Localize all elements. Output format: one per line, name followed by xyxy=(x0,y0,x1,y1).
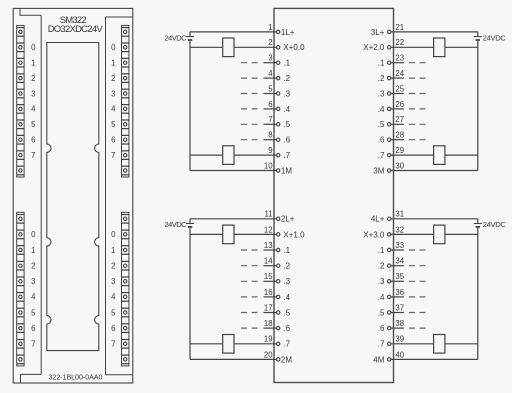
wire pin 19 to supply rail xyxy=(190,343,277,345)
svg-text:1: 1 xyxy=(111,59,115,68)
terminal strip left bottom xyxy=(17,212,24,366)
pin 8 terminal circle xyxy=(277,138,280,141)
wire pin 1 to supply rail xyxy=(190,31,277,33)
wire pin 23 dashed continuation xyxy=(409,62,426,64)
svg-text:35: 35 xyxy=(395,272,404,281)
wire pin 18 dashed continuation xyxy=(241,327,257,329)
svg-text:3M: 3M xyxy=(373,166,384,175)
svg-text:5: 5 xyxy=(268,84,273,93)
svg-text:3: 3 xyxy=(111,277,115,286)
wire pin 13 dashed continuation xyxy=(241,249,257,251)
pin 40 terminal circle xyxy=(388,358,391,361)
wire pin 14 dashed continuation xyxy=(241,265,257,267)
wire pin 37 stub xyxy=(391,312,404,314)
wire pin 40 to supply rail xyxy=(391,358,478,360)
pin 35 terminal circle xyxy=(388,280,391,283)
pin 12 terminal circle xyxy=(277,233,280,236)
svg-text:.3: .3 xyxy=(283,89,290,98)
wire pin 35 stub xyxy=(391,280,404,282)
svg-text:2: 2 xyxy=(31,74,35,83)
svg-text:21: 21 xyxy=(395,23,404,32)
wire pin 2 to supply rail xyxy=(190,46,277,48)
svg-text:25: 25 xyxy=(395,84,404,93)
svg-text:2: 2 xyxy=(31,262,35,271)
wire pin 6 stub xyxy=(263,108,276,110)
wire pin 16 stub xyxy=(263,296,276,298)
pin 3 terminal circle xyxy=(277,61,280,64)
wire pin 22 to supply rail xyxy=(391,46,478,48)
battery 24VDC group 4 negative plate xyxy=(476,226,480,228)
pin 30 terminal circle xyxy=(388,169,391,172)
pin 2 terminal circle xyxy=(277,46,280,49)
svg-text:28: 28 xyxy=(395,131,404,140)
module body plate with notches xyxy=(47,43,99,351)
svg-text:5: 5 xyxy=(111,308,116,317)
wire pin 15 dashed continuation xyxy=(241,280,257,282)
svg-text:24VDC: 24VDC xyxy=(483,33,507,42)
pin 22 terminal circle xyxy=(388,46,391,49)
pin 4 terminal circle xyxy=(277,76,280,79)
svg-text:6: 6 xyxy=(111,324,115,333)
svg-text:26: 26 xyxy=(395,100,404,109)
pin 20 terminal circle xyxy=(277,358,280,361)
svg-text:5: 5 xyxy=(31,308,36,317)
svg-text:1M: 1M xyxy=(281,166,292,175)
wire 24VDC supply rail group 1 xyxy=(189,32,191,171)
pin 34 terminal circle xyxy=(388,264,391,267)
wire pin 31 to supply rail xyxy=(391,218,478,220)
wire pin 36 stub xyxy=(391,296,404,298)
battery 24VDC group 2 negative plate xyxy=(188,226,192,228)
svg-text:3: 3 xyxy=(268,54,272,63)
wire pin 30 to supply rail xyxy=(391,170,478,172)
svg-text:18: 18 xyxy=(264,319,273,328)
module bottom-right step xyxy=(106,374,133,376)
wire pin 24 dashed continuation xyxy=(409,77,426,79)
pin 16 terminal circle xyxy=(277,295,280,298)
svg-text:38: 38 xyxy=(395,319,404,328)
svg-text:.6: .6 xyxy=(378,324,385,333)
pin 31 terminal circle xyxy=(388,217,391,220)
wire pin 5 stub xyxy=(263,93,276,95)
svg-text:1: 1 xyxy=(31,59,35,68)
module top-left step xyxy=(20,8,41,15)
wire pin 34 dashed continuation xyxy=(409,265,426,267)
svg-text:.4: .4 xyxy=(283,105,290,114)
terminal strip left top xyxy=(17,25,24,177)
svg-text:36: 36 xyxy=(395,288,404,297)
pin 17 terminal circle xyxy=(277,311,280,314)
wire pin 12 to supply rail xyxy=(190,233,277,235)
pin 33 terminal circle xyxy=(388,248,391,251)
wire 24VDC supply rail group 3 xyxy=(477,32,479,171)
svg-text:1: 1 xyxy=(31,246,35,255)
battery 24VDC group 3 negative plate xyxy=(476,39,480,41)
svg-text:.1: .1 xyxy=(378,246,385,255)
wire pin 8 dashed continuation xyxy=(241,139,257,141)
svg-text:.5: .5 xyxy=(283,308,290,317)
wire 24VDC supply rail group 2 xyxy=(189,219,191,360)
svg-text:30: 30 xyxy=(395,161,404,170)
svg-text:0: 0 xyxy=(31,43,36,52)
svg-text:X+2.0: X+2.0 xyxy=(363,43,385,52)
svg-text:33: 33 xyxy=(395,241,404,250)
pin 10 terminal circle xyxy=(277,169,280,172)
svg-text:322-1BL00-0AA0: 322-1BL00-0AA0 xyxy=(49,373,103,382)
svg-text:.2: .2 xyxy=(378,262,385,271)
svg-text:22: 22 xyxy=(395,38,404,47)
svg-text:23: 23 xyxy=(395,54,404,63)
wire pin 13 stub xyxy=(263,249,276,251)
pin 27 terminal circle xyxy=(388,123,391,126)
wire pin 26 dashed continuation xyxy=(409,108,426,110)
module top-right step xyxy=(106,16,133,18)
wire pin 20 to supply rail xyxy=(190,358,277,360)
load (actuator) on output X+1.0 group 2 xyxy=(223,225,234,244)
svg-text:17: 17 xyxy=(264,303,273,312)
pin 39 terminal circle xyxy=(388,342,391,345)
svg-text:.6: .6 xyxy=(283,136,290,145)
wire pin 35 dashed continuation xyxy=(409,280,426,282)
wire pin 6 dashed continuation xyxy=(241,108,257,110)
svg-text:29: 29 xyxy=(395,146,404,155)
svg-text:X+0.0: X+0.0 xyxy=(283,43,305,52)
svg-text:27: 27 xyxy=(395,115,404,124)
svg-text:1: 1 xyxy=(268,23,272,32)
svg-text:24VDC: 24VDC xyxy=(483,220,507,229)
battery 24VDC group 4 positive plate xyxy=(474,223,482,225)
wire pin 38 stub xyxy=(391,327,404,329)
svg-text:.2: .2 xyxy=(378,74,385,83)
wire pin 3 dashed continuation xyxy=(241,62,257,64)
svg-text:14: 14 xyxy=(264,257,273,266)
svg-text:1L+: 1L+ xyxy=(281,28,295,37)
wire pin 27 stub xyxy=(391,123,404,125)
svg-text:6: 6 xyxy=(31,136,35,145)
wire pin 14 stub xyxy=(263,265,276,267)
svg-text:32: 32 xyxy=(395,225,404,234)
svg-text:.1: .1 xyxy=(283,59,290,68)
svg-text:.5: .5 xyxy=(378,308,385,317)
wire pin 8 stub xyxy=(263,139,276,141)
pin 36 terminal circle xyxy=(388,295,391,298)
wire pin 18 stub xyxy=(263,327,276,329)
svg-text:6: 6 xyxy=(111,136,115,145)
svg-text:39: 39 xyxy=(395,335,404,344)
svg-text:.3: .3 xyxy=(378,277,385,286)
pin 18 terminal circle xyxy=(277,326,280,329)
svg-text:24VDC: 24VDC xyxy=(165,33,188,42)
svg-text:20: 20 xyxy=(264,350,273,359)
svg-text:2L+: 2L+ xyxy=(281,215,295,224)
module left separator wall xyxy=(40,15,42,374)
pin 11 terminal circle xyxy=(277,217,280,220)
svg-text:3: 3 xyxy=(111,89,115,98)
pin 14 terminal circle xyxy=(277,264,280,267)
svg-text:11: 11 xyxy=(265,210,273,219)
load (actuator) on output .7 group 2 xyxy=(223,335,234,354)
wire pin 21 to supply rail xyxy=(391,31,478,33)
pin 13 terminal circle xyxy=(277,248,280,251)
wire pin 29 to supply rail xyxy=(391,154,478,156)
wire pin 5 dashed continuation xyxy=(241,93,257,95)
svg-text:7: 7 xyxy=(31,340,35,349)
svg-text:10: 10 xyxy=(264,161,273,170)
pin 9 terminal circle xyxy=(277,153,280,156)
svg-text:4: 4 xyxy=(31,293,36,302)
svg-text:4: 4 xyxy=(268,69,273,78)
terminal strip right bottom xyxy=(122,212,129,366)
svg-text:7: 7 xyxy=(31,151,35,160)
module block (terminal box) xyxy=(274,8,394,382)
pin 7 terminal circle xyxy=(277,123,280,126)
wire pin 17 stub xyxy=(263,312,276,314)
wire pin 7 dashed continuation xyxy=(241,123,257,125)
wire pin 9 to supply rail xyxy=(190,154,277,156)
svg-text:4L+: 4L+ xyxy=(371,215,385,224)
wire pin 33 stub xyxy=(391,249,404,251)
svg-text:.7: .7 xyxy=(283,151,290,160)
load (actuator) on output .7 group 3 xyxy=(434,146,445,165)
svg-text:3L+: 3L+ xyxy=(371,28,385,37)
pin 32 terminal circle xyxy=(388,233,391,236)
pin 38 terminal circle xyxy=(388,326,391,329)
wire pin 4 stub xyxy=(263,77,276,79)
wire pin 32 to supply rail xyxy=(391,233,478,235)
wire pin 33 dashed continuation xyxy=(409,249,426,251)
svg-text:4: 4 xyxy=(111,293,116,302)
svg-text:2: 2 xyxy=(111,74,115,83)
load (actuator) on output .7 group 4 xyxy=(434,335,445,354)
pin 29 terminal circle xyxy=(388,153,391,156)
wire pin 17 dashed continuation xyxy=(241,312,257,314)
svg-text:7: 7 xyxy=(111,151,115,160)
svg-text:15: 15 xyxy=(264,272,273,281)
svg-text:40: 40 xyxy=(395,350,404,359)
svg-text:2M: 2M xyxy=(281,355,292,364)
pin 37 terminal circle xyxy=(388,311,391,314)
svg-text:31: 31 xyxy=(395,210,404,219)
pin 6 terminal circle xyxy=(277,107,280,110)
svg-text:5: 5 xyxy=(31,120,36,129)
svg-text:.4: .4 xyxy=(283,293,290,302)
svg-text:12: 12 xyxy=(264,225,273,234)
pin 24 terminal circle xyxy=(388,76,391,79)
svg-text:X+3.0: X+3.0 xyxy=(363,230,385,239)
wire pin 10 to supply rail xyxy=(190,170,277,172)
svg-text:.4: .4 xyxy=(378,293,385,302)
svg-text:.1: .1 xyxy=(283,246,290,255)
pin 15 terminal circle xyxy=(277,280,280,283)
svg-text:.1: .1 xyxy=(378,59,385,68)
svg-text:.5: .5 xyxy=(283,120,290,129)
svg-text:X+1.0: X+1.0 xyxy=(283,230,305,239)
module bottom-left step xyxy=(21,374,42,383)
module SM322 outline xyxy=(13,8,133,383)
svg-text:DO32XDC24V: DO32XDC24V xyxy=(48,24,104,35)
svg-text:9: 9 xyxy=(268,146,272,155)
wire pin 24 stub xyxy=(391,77,404,79)
pin 28 terminal circle xyxy=(388,138,391,141)
wire pin 26 stub xyxy=(391,108,404,110)
terminal strip right top xyxy=(122,25,129,177)
svg-text:3: 3 xyxy=(31,89,35,98)
wire pin 4 dashed continuation xyxy=(241,77,257,79)
wire pin 36 dashed continuation xyxy=(409,296,426,298)
svg-text:8: 8 xyxy=(268,131,272,140)
load (actuator) on output .7 group 1 xyxy=(223,146,234,165)
battery 24VDC group 1 positive plate xyxy=(186,36,194,38)
wire pin 23 stub xyxy=(391,62,404,64)
battery 24VDC group 3 positive plate xyxy=(474,36,482,38)
svg-text:1: 1 xyxy=(111,246,115,255)
svg-text:.7: .7 xyxy=(378,340,385,349)
load (actuator) on output X+3.0 group 4 xyxy=(434,225,445,244)
svg-text:0: 0 xyxy=(111,230,116,239)
wire pin 28 dashed continuation xyxy=(409,139,426,141)
pin 19 terminal circle xyxy=(277,342,280,345)
svg-text:13: 13 xyxy=(264,241,273,250)
pin 21 terminal circle xyxy=(388,30,391,33)
svg-text:.5: .5 xyxy=(378,120,385,129)
svg-text:.3: .3 xyxy=(378,89,385,98)
svg-text:4M: 4M xyxy=(373,355,384,364)
battery 24VDC group 2 positive plate xyxy=(186,223,194,225)
wire pin 25 stub xyxy=(391,93,404,95)
wire pin 27 dashed continuation xyxy=(409,123,426,125)
wire pin 16 dashed continuation xyxy=(241,296,257,298)
svg-text:37: 37 xyxy=(395,303,404,312)
wire pin 15 stub xyxy=(263,280,276,282)
pin 5 terminal circle xyxy=(277,92,280,95)
svg-text:.3: .3 xyxy=(283,277,290,286)
svg-text:34: 34 xyxy=(395,257,404,266)
svg-text:.4: .4 xyxy=(378,105,385,114)
wire 24VDC supply rail group 4 xyxy=(477,219,479,360)
wire pin 37 dashed continuation xyxy=(409,312,426,314)
load (actuator) on output X+0.0 group 1 xyxy=(223,38,234,57)
wire pin 39 to supply rail xyxy=(391,343,478,345)
battery 24VDC group 1 negative plate xyxy=(188,39,192,41)
pin 25 terminal circle xyxy=(388,92,391,95)
pin 23 terminal circle xyxy=(388,61,391,64)
svg-text:6: 6 xyxy=(268,100,272,109)
wire pin 34 stub xyxy=(391,265,404,267)
pin 1 terminal circle xyxy=(277,30,280,33)
module right separator wall xyxy=(105,17,107,375)
svg-text:.6: .6 xyxy=(283,324,290,333)
svg-text:5: 5 xyxy=(111,120,116,129)
svg-text:24VDC: 24VDC xyxy=(165,220,188,229)
wire pin 28 stub xyxy=(391,139,404,141)
svg-text:4: 4 xyxy=(31,105,36,114)
wire pin 25 dashed continuation xyxy=(409,93,426,95)
svg-text:.7: .7 xyxy=(283,340,290,349)
svg-text:7: 7 xyxy=(268,115,272,124)
svg-text:4: 4 xyxy=(111,105,116,114)
wire pin 38 dashed continuation xyxy=(409,327,426,329)
svg-text:0: 0 xyxy=(111,43,116,52)
svg-text:24: 24 xyxy=(395,69,404,78)
wire pin 3 stub xyxy=(263,62,276,64)
pin 26 terminal circle xyxy=(388,107,391,110)
svg-text:.6: .6 xyxy=(378,136,385,145)
svg-text:19: 19 xyxy=(264,335,273,344)
svg-text:.2: .2 xyxy=(283,74,290,83)
load (actuator) on output X+2.0 group 3 xyxy=(434,38,445,57)
svg-text:7: 7 xyxy=(111,340,115,349)
svg-text:16: 16 xyxy=(264,288,273,297)
svg-text:.2: .2 xyxy=(283,262,290,271)
svg-text:6: 6 xyxy=(31,324,35,333)
svg-text:2: 2 xyxy=(268,38,272,47)
svg-text:0: 0 xyxy=(31,230,36,239)
wire pin 7 stub xyxy=(263,123,276,125)
svg-text:3: 3 xyxy=(31,277,35,286)
wire pin 11 to supply rail xyxy=(190,218,277,220)
svg-text:.7: .7 xyxy=(378,151,385,160)
svg-text:2: 2 xyxy=(111,262,115,271)
